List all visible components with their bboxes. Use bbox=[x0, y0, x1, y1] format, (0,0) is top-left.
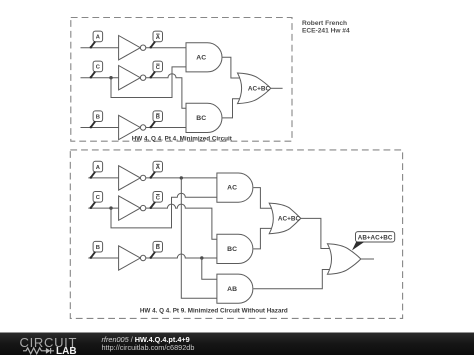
svg-text:BC: BC bbox=[227, 246, 237, 253]
node flag input C (top) bbox=[90, 61, 103, 78]
AND gate AC (bottom) bbox=[217, 173, 253, 202]
wire: U5 output (C-bar) to AND BC input 1, hops over C branch and A-bar branch bbox=[146, 204, 217, 239]
inverter U2 (top, C) bbox=[119, 66, 146, 90]
wire: input C to inverter U2 bbox=[81, 77, 119, 79]
wire: OR1 output to OR2 input 1 bbox=[301, 218, 331, 248]
svg-text:AC: AC bbox=[196, 54, 206, 61]
junction A-bar branch bbox=[180, 176, 183, 179]
AND gate AB (bottom) bbox=[217, 274, 253, 303]
OR gate OR1 AC+BC (bottom) bbox=[269, 203, 301, 234]
junction row C branch (top) bbox=[109, 76, 112, 79]
inverter U4 (bottom, A) bbox=[119, 166, 146, 190]
wire: AND AB output to OR2 input 2 bbox=[253, 270, 331, 289]
wire: C branch loop to AND AC input 2 bbox=[111, 67, 186, 98]
node flag output AB+AC+BC bbox=[352, 232, 395, 251]
wire: U2 output (C-bar) to AND BC input 1, hops over C branch bbox=[146, 74, 186, 109]
svg-text:B: B bbox=[96, 115, 100, 121]
svg-text:LAB: LAB bbox=[56, 346, 77, 355]
wire: input A to inverter U1 bbox=[81, 47, 119, 49]
wire: A-bar branch down to AND AB input 2 bbox=[181, 178, 217, 298]
node flag input A (top) bbox=[90, 31, 103, 48]
wire: AND BC output to OR1 input 2 bbox=[253, 228, 273, 249]
wire: AND AC output to OR input 1 bbox=[223, 57, 242, 78]
node flag input B (top) bbox=[90, 111, 103, 128]
svg-text:AB: AB bbox=[227, 286, 237, 293]
wire: U3 output to AND BC input 2 bbox=[146, 127, 186, 129]
AND gate BC (bottom) bbox=[217, 234, 253, 263]
wire: input B to inverter U6 bbox=[88, 257, 118, 259]
wire: B-bar branch to AND AB input 1 bbox=[202, 258, 217, 279]
node flag output C-bar (bottom) bbox=[150, 192, 163, 209]
wire: input B to inverter U3 bbox=[81, 127, 119, 129]
wire: AND BC output to OR input 2 bbox=[223, 99, 242, 118]
svg-text:HW 4. Q 4. Pt 4. Minimized Cir: HW 4. Q 4. Pt 4. Minimized Circuit bbox=[132, 135, 233, 142]
svg-text:B: B bbox=[96, 245, 100, 251]
top circuit dashed boundary box bbox=[71, 18, 292, 142]
svg-text:http://circuitlab.com/c6892db: http://circuitlab.com/c6892db bbox=[102, 343, 195, 352]
svg-text:AC+BC: AC+BC bbox=[248, 86, 271, 93]
inverter U3 (top, B) bbox=[119, 115, 146, 139]
OR gate output OR (top) bbox=[238, 73, 271, 104]
AND gate AC (top) bbox=[186, 43, 222, 72]
wire: U4 output (A-bar) to AND AC input 1 bbox=[146, 177, 217, 179]
inverter U5 (bottom, C) bbox=[119, 196, 146, 220]
svg-text:Robert French: Robert French bbox=[302, 20, 347, 27]
CircuitLab logo: resistor zigzag and diode bbox=[23, 348, 54, 354]
wire: input A to inverter U4 bbox=[88, 177, 118, 179]
wire: OR output stub AC+BC bbox=[271, 87, 283, 89]
wire: C branch loop to AND AC input 2, hops over A-bar branch bbox=[111, 193, 217, 228]
node flag output B-bar (top) bbox=[150, 111, 163, 128]
node flag input C (bottom) bbox=[90, 192, 103, 209]
svg-text:AC+BC: AC+BC bbox=[278, 216, 301, 223]
AND gate BC (top) bbox=[186, 103, 222, 132]
svg-text:B: B bbox=[156, 115, 160, 121]
bottom circuit dashed boundary box bbox=[70, 150, 402, 319]
svg-text:HW 4. Q 4. Pt 9. Minimized Cir: HW 4. Q 4. Pt 9. Minimized Circuit Witho… bbox=[140, 308, 288, 315]
svg-text:BC: BC bbox=[196, 115, 206, 122]
junction B-bar branch bbox=[200, 256, 203, 259]
node flag input A (bottom) bbox=[90, 161, 103, 178]
svg-text:B: B bbox=[156, 245, 160, 251]
wire: input C to inverter U5 bbox=[88, 207, 118, 209]
svg-text:ECE-241 Hw #4: ECE-241 Hw #4 bbox=[302, 27, 350, 34]
wire: OR2 output stub bbox=[361, 258, 374, 260]
node flag output A-bar (bottom) bbox=[150, 161, 163, 178]
wire: U1 output to AND AC input 1 bbox=[146, 47, 186, 49]
inverter U1 (top, A) bbox=[119, 36, 146, 60]
wire: U6 output (B-bar) to AND BC input 2, hops over A-bar branch bbox=[146, 254, 217, 258]
svg-text:AB+AC+BC: AB+AC+BC bbox=[358, 234, 393, 241]
node flag output B-bar (bottom) bbox=[150, 241, 163, 258]
node flag input B (bottom) bbox=[90, 241, 103, 258]
svg-text:AC: AC bbox=[227, 185, 237, 192]
junction row C branch (bottom) bbox=[109, 206, 112, 209]
inverter U6 (bottom, B) bbox=[119, 246, 146, 270]
wire: AND AC output to OR1 input 1 bbox=[253, 188, 273, 209]
node flag output C-bar (top) bbox=[150, 61, 163, 78]
OR gate OR2 final (bottom) bbox=[327, 244, 360, 275]
node flag output A-bar (top) bbox=[150, 31, 163, 48]
